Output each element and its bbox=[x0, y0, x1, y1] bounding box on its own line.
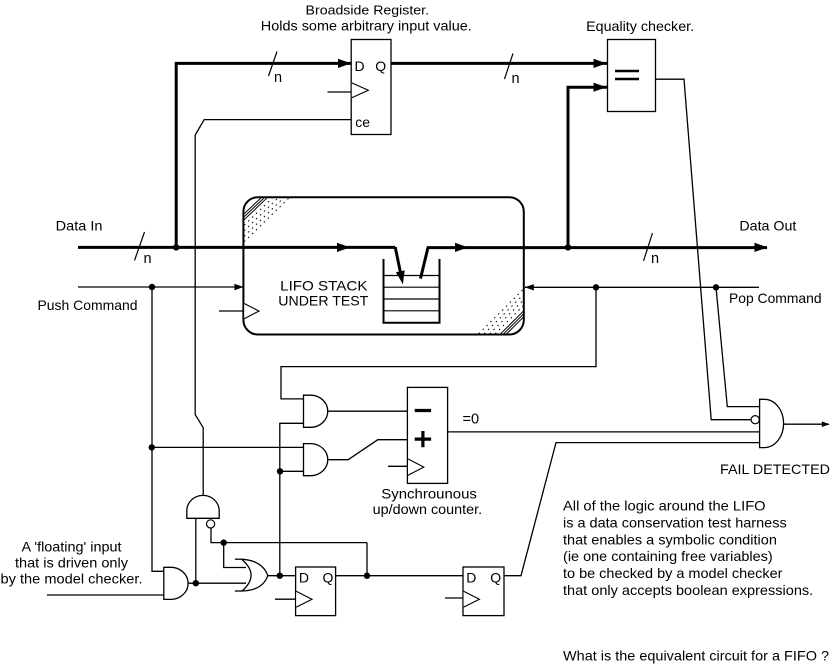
flip-flop U5 pin D bbox=[299, 570, 309, 586]
arrow data-out end bbox=[755, 243, 768, 252]
wire floating AND to NAND input bbox=[195, 518, 197, 583]
register U1 box bbox=[351, 40, 391, 135]
svg-text:n: n bbox=[144, 251, 152, 267]
bus slash n (data out) bbox=[644, 233, 660, 267]
svg-text:up/down counter.: up/down counter. bbox=[373, 501, 483, 517]
wire floating AND output bbox=[188, 582, 246, 584]
wire counter =0 output to fail OR bbox=[448, 431, 760, 433]
wire riser to AND G3 lower input bbox=[280, 470, 304, 472]
svg-text:Q: Q bbox=[375, 58, 386, 74]
wire NAND bubble output bbox=[211, 528, 367, 543]
wire push tap down to floating AND bbox=[152, 287, 164, 571]
bus slash n (data in) bbox=[135, 232, 152, 267]
svg-text:ce: ce bbox=[355, 114, 370, 130]
register U1 pin D bbox=[355, 58, 365, 74]
or gate G5 bbox=[235, 559, 268, 591]
svg-text:that enables a symbolic condit: that enables a symbolic condition bbox=[563, 531, 777, 547]
label harness note line3 bbox=[563, 531, 777, 547]
label harness note line1 bbox=[563, 498, 766, 514]
or gate G6 input bubble bbox=[751, 416, 759, 424]
wire pop tap to AND G2 upper input bbox=[281, 287, 596, 399]
wire NAND output down to OR input bbox=[224, 543, 246, 568]
wire register clock stub bbox=[328, 91, 352, 93]
svg-text:Q: Q bbox=[490, 570, 501, 586]
register U1 pin ce bbox=[355, 114, 370, 130]
wire AND G2 output to counter minus bbox=[328, 410, 407, 412]
svg-text:Synchrounous: Synchrounous bbox=[381, 486, 477, 502]
and gate G3 (push and) bbox=[304, 444, 328, 476]
flip-flop U5 clock triangle bbox=[296, 591, 312, 607]
junction push-to-subtract tap bbox=[149, 444, 155, 450]
junction riser to AND G3 bbox=[277, 468, 283, 474]
label broadside register bbox=[306, 2, 430, 17]
svg-text:is a data conservation test ha: is a data conservation test harness bbox=[563, 514, 787, 530]
label harness note line5 bbox=[563, 565, 783, 581]
svg-text:All of the logic around the LI: All of the logic around the LIFO bbox=[563, 498, 766, 514]
wire flip-flop U5 Q to U6 D bbox=[336, 575, 463, 577]
arrow into register D bbox=[338, 59, 351, 68]
wire flip-flop U6 Q slant to fail OR bbox=[504, 443, 759, 576]
counter U4 box bbox=[407, 387, 447, 483]
svg-text:n: n bbox=[274, 70, 282, 86]
bus slash n (register output) bbox=[505, 54, 520, 88]
svg-text:Holds some arbitrary input val: Holds some arbitrary input value. bbox=[261, 18, 472, 34]
label fail detected bbox=[720, 461, 830, 477]
arrow fail output bbox=[822, 421, 830, 427]
wire pop slant out of stack bbox=[421, 248, 768, 279]
label harness note line4 bbox=[563, 548, 773, 564]
svg-text:Push Command: Push Command bbox=[38, 297, 138, 313]
label lifo stack line1 bbox=[280, 277, 368, 293]
register U1 pin Q bbox=[375, 58, 386, 74]
LIFO U3 bottom-right hatching bbox=[479, 289, 524, 334]
wire data-in tap riser bbox=[176, 63, 351, 247]
label floating line3 bbox=[1, 571, 143, 587]
arrow into equality top bbox=[594, 59, 607, 68]
label data out bbox=[739, 217, 796, 233]
junction data-in tap bbox=[173, 244, 179, 250]
arrow push into stack bbox=[396, 270, 405, 284]
flip-flop U6 pin D bbox=[466, 570, 476, 586]
wire pop command bbox=[525, 286, 759, 288]
label harness note line2 bbox=[563, 514, 787, 530]
label synchrounous bbox=[381, 486, 477, 502]
arrow pop into LIFO bbox=[525, 284, 534, 290]
junction pop tap 1 bbox=[593, 284, 599, 290]
wire AND G3 output to counter plus bbox=[328, 440, 407, 460]
wire counter clock stub bbox=[388, 465, 407, 467]
svg-text:n: n bbox=[512, 71, 520, 87]
svg-text:A 'floating' input: A 'floating' input bbox=[22, 539, 122, 555]
register U1 clock triangle bbox=[352, 83, 369, 98]
equality checker U2 = symbol bbox=[615, 71, 639, 79]
counter U4 minus pin bbox=[415, 409, 431, 412]
wire register Q to equality bbox=[391, 62, 607, 65]
svg-text:UNDER TEST: UNDER TEST bbox=[278, 293, 368, 309]
flip-flop U6 pin Q bbox=[490, 570, 501, 586]
wire push slant into stack bbox=[395, 247, 401, 277]
svg-text:that is driven only: that is driven only bbox=[15, 555, 128, 571]
junction push tap bbox=[149, 284, 155, 290]
nand gate G4 bubble bbox=[207, 520, 215, 528]
wire fail detected output bbox=[784, 423, 829, 425]
label fifo question bbox=[563, 648, 829, 664]
wire ce from clock-enable logic to register ce bbox=[195, 120, 351, 497]
wire flip-flop U5 Q loopback bbox=[366, 543, 368, 576]
label lifo stack line2 bbox=[278, 293, 368, 309]
wire LIFO clock stub bbox=[219, 310, 243, 312]
label harness note line6 bbox=[563, 582, 813, 598]
LIFO U3 rounded box bbox=[243, 197, 523, 334]
svg-text:Broadside Register.: Broadside Register. bbox=[306, 2, 430, 17]
arrow on data bus in LIFO bbox=[337, 243, 350, 252]
label =0 bbox=[463, 412, 480, 428]
label holds value bbox=[261, 18, 472, 34]
junction pop tap 2 bbox=[713, 284, 719, 290]
or gate G6 (fail detect) bbox=[760, 399, 784, 447]
label equality checker bbox=[586, 18, 694, 34]
nand gate G4 dome bbox=[187, 495, 219, 518]
label pop command bbox=[729, 290, 822, 306]
wire model checker input bbox=[47, 594, 164, 596]
junction floating AND output bbox=[193, 580, 199, 586]
counter U4 clock triangle bbox=[408, 459, 424, 475]
svg-text:LIFO STACK: LIFO STACK bbox=[280, 277, 368, 293]
wire OR output riser to subtract ANDs bbox=[280, 423, 304, 575]
arrow on data bus after stack bbox=[455, 243, 468, 252]
wire equality output to fail OR bubble bbox=[656, 79, 751, 420]
svg-text:What is the equivalent circuit: What is the equivalent circuit for a FIF… bbox=[563, 648, 829, 664]
svg-text:by the model checker.: by the model checker. bbox=[1, 571, 143, 587]
equality checker U2 box bbox=[608, 40, 656, 112]
and gate G2 (pop and) bbox=[304, 395, 328, 427]
flip-flop U5 box bbox=[296, 567, 336, 616]
svg-text:Equality checker.: Equality checker. bbox=[586, 18, 694, 34]
svg-text:(ie one containing free variab: (ie one containing free variables) bbox=[563, 548, 773, 564]
wire push command bbox=[78, 286, 243, 288]
svg-text:Data In: Data In bbox=[56, 218, 103, 234]
flip-flop U6 clock triangle bbox=[464, 591, 480, 607]
counter U4 plus pin bbox=[415, 431, 431, 447]
wire push to AND G3 upper input bbox=[152, 446, 304, 448]
svg-text:Q: Q bbox=[323, 570, 334, 586]
bus slash n (register input) bbox=[269, 52, 283, 87]
svg-text:D: D bbox=[299, 570, 309, 586]
flip-flop U6 box bbox=[463, 567, 504, 616]
arrow into equality bottom bbox=[594, 83, 607, 92]
svg-text:n: n bbox=[651, 251, 659, 267]
wire data-in bus bbox=[78, 246, 395, 249]
wire OR output to flip-flop U5 D bbox=[268, 575, 296, 577]
junction data-out tap bbox=[565, 244, 571, 250]
svg-text:FAIL DETECTED: FAIL DETECTED bbox=[720, 461, 830, 477]
wire flip-flop U5 clock stub bbox=[275, 598, 296, 600]
svg-text:that only accepts boolean expr: that only accepts boolean expressions. bbox=[563, 582, 813, 598]
label floating line2 bbox=[15, 555, 128, 571]
svg-text:D: D bbox=[466, 570, 476, 586]
LIFO U3 stack cells bbox=[383, 259, 441, 323]
arrow push into LIFO bbox=[234, 284, 243, 290]
wire pop slant to fail OR input bbox=[716, 287, 760, 406]
wire flip-flop U6 clock stub bbox=[445, 597, 463, 599]
wire data-out tap riser bbox=[568, 87, 607, 247]
LIFO U3 clock triangle bbox=[244, 304, 259, 319]
svg-text:D: D bbox=[355, 58, 365, 74]
junction U5 Q bbox=[364, 573, 370, 579]
label up/down counter bbox=[373, 501, 483, 517]
label data in bbox=[56, 218, 103, 234]
junction NAND output tee bbox=[221, 539, 227, 545]
junction OR output bbox=[277, 573, 283, 579]
LIFO U3 top-left hatching bbox=[244, 198, 289, 242]
and gate G1 (floating input) bbox=[164, 567, 188, 599]
label push command bbox=[38, 297, 138, 313]
svg-text:=0: =0 bbox=[463, 412, 480, 428]
svg-text:to be checked by a model check: to be checked by a model checker bbox=[563, 565, 783, 581]
svg-text:Pop Command: Pop Command bbox=[729, 290, 822, 306]
svg-text:Data Out: Data Out bbox=[739, 217, 796, 233]
flip-flop U5 pin Q bbox=[323, 570, 334, 586]
label floating line1 bbox=[22, 539, 122, 555]
